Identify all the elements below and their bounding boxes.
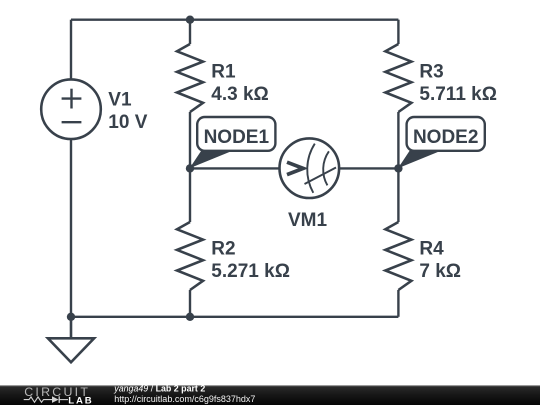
VM1 meter arc left bbox=[307, 144, 315, 193]
footer logo doodle wire + resistor bbox=[24, 397, 52, 402]
voltmeter VM1 circle bbox=[280, 138, 340, 198]
wire left column lower bbox=[70, 139, 72, 317]
svg-text:R4: R4 bbox=[419, 238, 444, 259]
wire right column between R3 and R4 bbox=[397, 112, 399, 222]
wire bottom rail bbox=[71, 316, 398, 318]
wire middle column bottom lead bbox=[189, 290, 191, 317]
node label NODE2 box bbox=[407, 117, 485, 151]
V1 minus sign bbox=[62, 121, 82, 123]
svg-text:NODE2: NODE2 bbox=[413, 127, 478, 148]
resistor R4 body bbox=[385, 222, 411, 290]
wire node1 to voltmeter bbox=[190, 167, 280, 169]
junction dot top middle bbox=[186, 16, 194, 24]
junction dot node A (NODE1) bbox=[186, 164, 194, 172]
resistor R2 body bbox=[177, 222, 203, 290]
VM1 meter arc right bbox=[323, 151, 329, 185]
ground symbol bbox=[48, 317, 94, 363]
svg-text:VM1: VM1 bbox=[288, 210, 328, 231]
wire middle column top lead bbox=[189, 20, 191, 44]
resistor R3 body bbox=[385, 44, 411, 112]
VM1 needle bbox=[305, 168, 337, 185]
junction dot bottom left bbox=[67, 313, 75, 321]
svg-text:5.711 kΩ: 5.711 kΩ bbox=[419, 84, 497, 105]
wire right column top lead bbox=[397, 20, 399, 44]
junction dot node B (NODE2) bbox=[394, 164, 402, 172]
resistor R1 body bbox=[177, 44, 203, 112]
wire middle column between R1 and R2 bbox=[189, 112, 191, 222]
V1 plus sign bbox=[62, 89, 82, 109]
wire left column upper bbox=[70, 20, 72, 80]
VM1 chevron bbox=[287, 162, 303, 174]
footer bar top highlight line bbox=[0, 385, 540, 386]
svg-text:yanga49 / Lab 2 part 2: yanga49 / Lab 2 part 2 bbox=[113, 383, 205, 393]
svg-text:5.271 kΩ: 5.271 kΩ bbox=[211, 261, 290, 282]
node label NODE1 callout tail bbox=[190, 151, 233, 169]
wire right column bottom lead bbox=[397, 290, 399, 317]
svg-text:4.3 kΩ: 4.3 kΩ bbox=[211, 84, 268, 105]
svg-text:7 kΩ: 7 kΩ bbox=[419, 261, 461, 282]
footer logo diode bbox=[52, 396, 59, 403]
svg-text:NODE1: NODE1 bbox=[204, 127, 270, 148]
svg-text:http://circuitlab.com/c6g9fs83: http://circuitlab.com/c6g9fs837hdx7 bbox=[114, 394, 255, 404]
wire voltmeter to node2 bbox=[339, 167, 398, 169]
svg-text:10 V: 10 V bbox=[108, 112, 147, 133]
junction dot bottom middle bbox=[186, 313, 194, 321]
wire top rail bbox=[71, 19, 398, 21]
node label NODE2 callout tail bbox=[398, 151, 441, 169]
svg-text:LAB: LAB bbox=[68, 395, 93, 405]
node label NODE1 box bbox=[197, 117, 275, 151]
svg-text:V1: V1 bbox=[108, 89, 132, 110]
svg-text:R2: R2 bbox=[211, 238, 235, 259]
voltage source V1 circle bbox=[41, 79, 101, 139]
svg-text:R1: R1 bbox=[211, 62, 236, 83]
svg-text:R3: R3 bbox=[419, 62, 443, 83]
